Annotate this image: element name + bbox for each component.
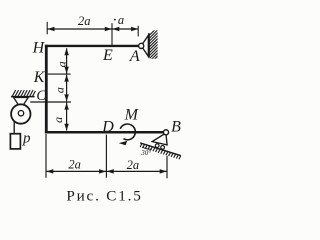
wall hatching at A xyxy=(149,26,159,68)
wall line at A xyxy=(148,33,150,57)
svg-text:2a: 2a xyxy=(78,14,91,28)
bottom extension line at B xyxy=(166,156,168,179)
svg-text:2a: 2a xyxy=(127,158,140,172)
bottom bar D-B xyxy=(45,131,164,134)
svg-text:a: a xyxy=(118,13,124,27)
weight P box xyxy=(10,134,20,149)
left vertical dimension a (H to K) xyxy=(66,48,68,73)
bottom extension line at D xyxy=(105,135,107,178)
svg-text:A: A xyxy=(129,48,140,65)
ceiling line above pulley xyxy=(11,96,35,98)
svg-text:E: E xyxy=(102,47,113,64)
svg-text:B: B xyxy=(171,119,181,136)
dimension extension tick at H (top) xyxy=(46,22,48,35)
pin at B xyxy=(163,130,168,135)
dimension extension tick at E xyxy=(111,23,113,45)
roller 1 xyxy=(155,144,159,148)
dimension line 2a (top, H to E) xyxy=(48,28,112,30)
top bar H-A xyxy=(45,45,139,47)
svg-text:2a: 2a xyxy=(68,157,81,171)
svg-text:30°: 30° xyxy=(140,149,151,157)
incline surface at B xyxy=(140,143,180,156)
pulley hub xyxy=(18,111,23,116)
pulley bracket xyxy=(14,98,29,109)
ceiling hatching xyxy=(12,90,35,96)
tick at K xyxy=(48,73,71,75)
left vertical dimension a (C to corner) xyxy=(66,103,68,131)
incline hatching xyxy=(139,143,182,162)
dimension line 2a (bottom right) xyxy=(107,170,167,172)
svg-text:a: a xyxy=(55,61,69,67)
pin at A xyxy=(139,43,144,48)
stray ink dot xyxy=(114,19,116,21)
svg-text:p: p xyxy=(22,130,31,146)
left bar H-C-corner xyxy=(45,45,48,134)
pulley wheel xyxy=(11,104,30,123)
svg-text:Рис. С1.5: Рис. С1.5 xyxy=(66,187,142,204)
svg-text:C: C xyxy=(36,88,46,104)
roller 2 xyxy=(161,146,165,150)
dimension line 2a (bottom left) xyxy=(46,170,106,172)
dimension line a (top, E to A) xyxy=(112,28,138,30)
left vertical dimension a (K to C) xyxy=(66,75,68,102)
svg-text:a: a xyxy=(51,117,65,123)
dimension extension tick at A xyxy=(137,26,139,37)
bottom extension line at corner xyxy=(45,134,47,178)
svg-text:K: K xyxy=(33,69,46,86)
rope to weight xyxy=(13,121,15,134)
svg-text:M: M xyxy=(124,107,140,124)
rope from C to pulley and tick at C xyxy=(30,101,71,103)
svg-text:H: H xyxy=(32,39,46,56)
support A triangle xyxy=(141,35,148,56)
30 degree arc xyxy=(142,147,152,149)
moment M arrowhead xyxy=(119,141,128,145)
svg-text:a: a xyxy=(53,87,67,93)
moment M arc xyxy=(120,124,135,140)
roller support triangle at B xyxy=(152,133,167,145)
svg-text:D: D xyxy=(101,118,114,135)
